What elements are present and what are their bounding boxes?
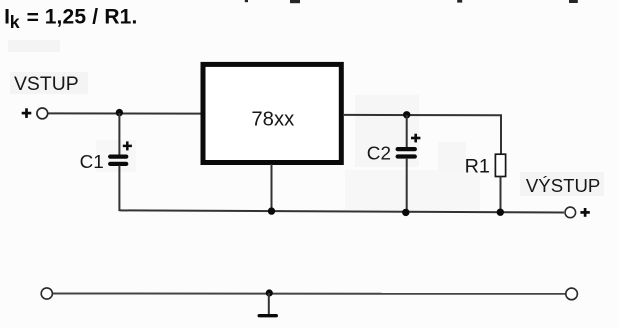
svg-text:VÝSTUP: VÝSTUP [526, 175, 600, 196]
resistor R1 body [495, 154, 505, 176]
node: middle rail junction at C2 [402, 209, 409, 216]
plus polarity mark C1 [123, 141, 132, 150]
node: middle rail junction at R1 [497, 209, 504, 216]
terminal VSTUP (open circle) [37, 108, 48, 119]
wire: R1 bottom to middle rail [500, 177, 502, 213]
terminal bottom-left (open circle) [41, 288, 52, 299]
formula Ik = 1,25 / R1. [4, 6, 137, 33]
regulator U1 box (78xx) [203, 64, 341, 162]
node: middle rail junction below 78xx [268, 207, 275, 214]
ground bar [259, 314, 276, 317]
plus sign at VSTUP terminal [22, 108, 32, 118]
capacitor C1 plates [110, 157, 126, 164]
capacitor C2 plates [398, 149, 415, 156]
node: bottom rail junction dot [266, 289, 273, 296]
svg-text:78xx: 78xx [251, 109, 294, 131]
plus polarity mark C2 [411, 134, 420, 143]
wire: junction down to C1 top plate [118, 113, 120, 155]
wire: junction down to C2 top plate [406, 115, 408, 148]
cropped text line fragments along top edge [245, 0, 578, 3]
wire: stub from bottom rail to ground bar [268, 293, 270, 315]
svg-text:k: k [10, 12, 20, 32]
wire: C2 bottom plate to middle rail [406, 158, 408, 212]
plus sign at VYSTUP terminal [580, 208, 589, 217]
svg-text:1,25 / R1.: 1,25 / R1. [45, 6, 138, 29]
wire: middle rail (output return) [119, 210, 564, 212]
terminal bottom-right (open circle) [566, 288, 578, 300]
node: junction dot at C1 tap [116, 109, 123, 116]
svg-text:C2: C2 [367, 144, 391, 165]
svg-text:VSTUP: VSTUP [14, 73, 79, 95]
svg-text:R1: R1 [465, 156, 490, 178]
wire: VSTUP terminal to 78xx input [48, 112, 202, 114]
svg-text:C1: C1 [80, 152, 104, 173]
svg-text:=: = [27, 7, 39, 30]
wire: 78xx output to corner above R1 [344, 115, 501, 154]
node: junction dot at C2 tap [403, 111, 410, 118]
wire: 78xx ground pin down to middle rail [271, 164, 273, 211]
terminal VYSTUP (open circle) [565, 207, 576, 218]
wire: C1 bottom plate to middle rail [118, 166, 120, 212]
wire: bottom rail [53, 293, 565, 295]
